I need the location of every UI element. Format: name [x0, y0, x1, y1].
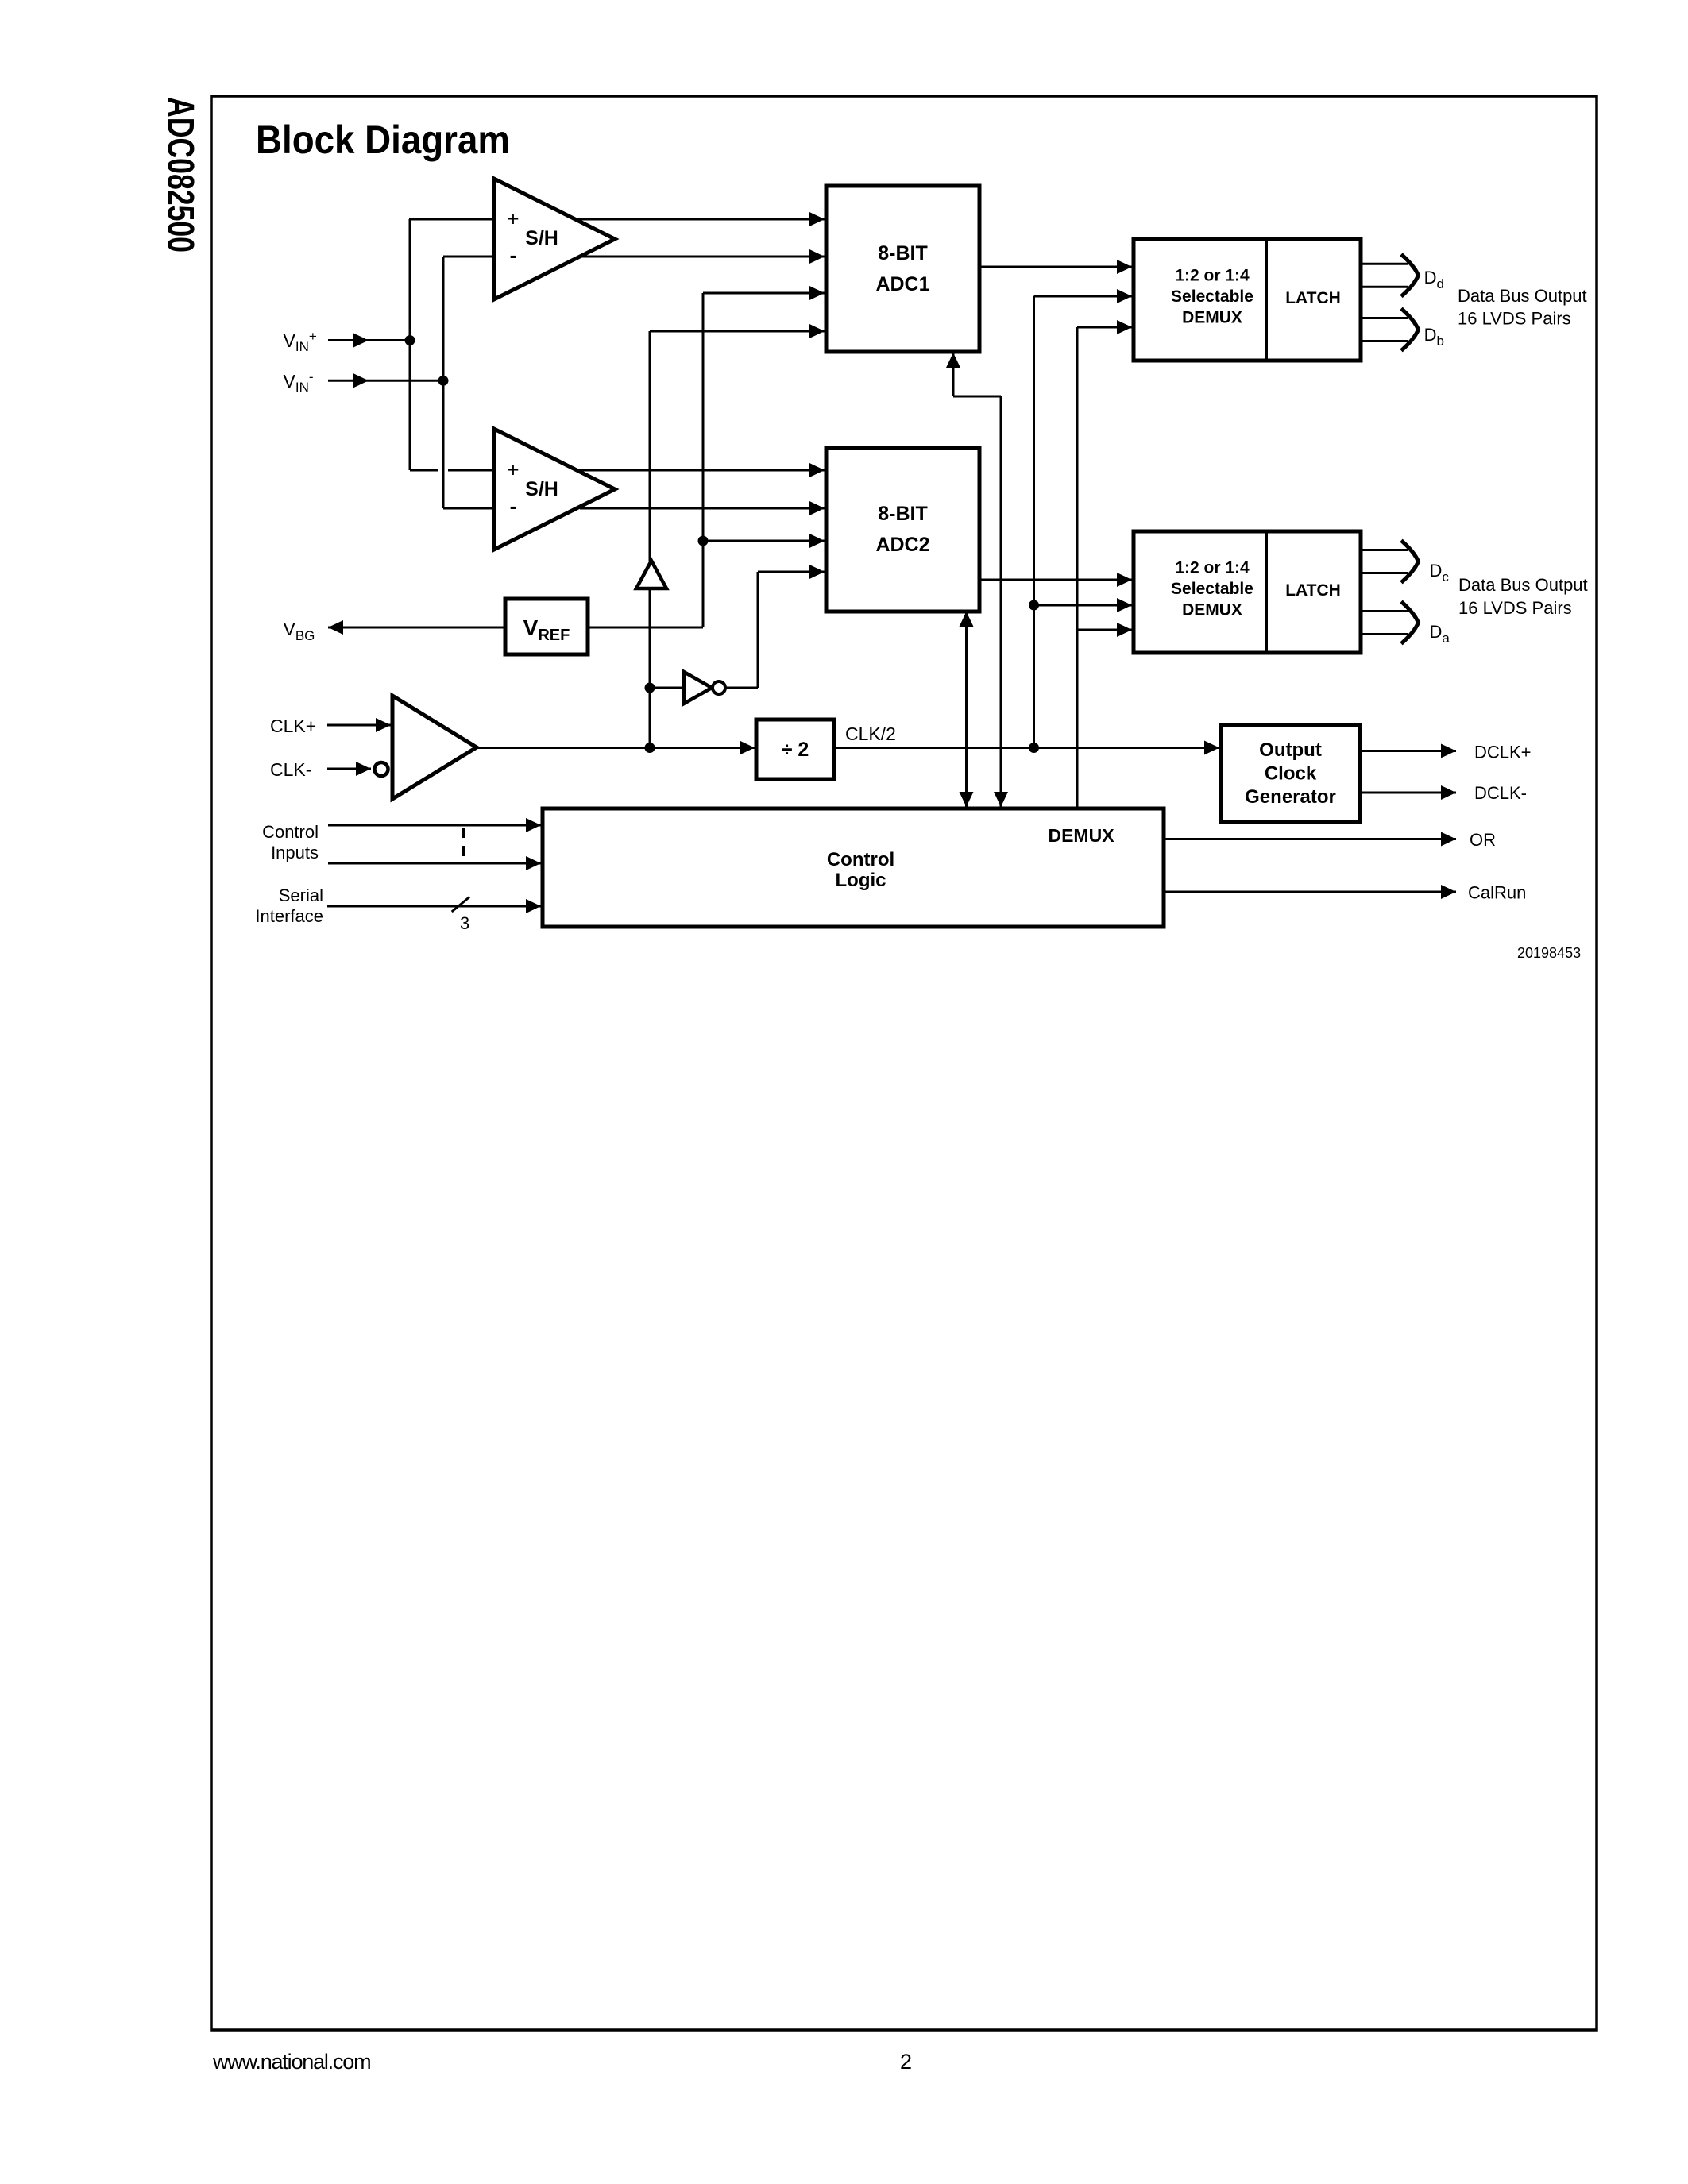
svg-text:Logic: Logic: [836, 870, 886, 891]
svg-text:Selectable: Selectable: [1171, 580, 1253, 598]
svg-text:Control: Control: [262, 822, 319, 842]
svg-text:20198453: 20198453: [1517, 945, 1581, 961]
svg-text:www.national.com: www.national.com: [212, 2050, 370, 2074]
svg-text:S/H: S/H: [525, 478, 558, 500]
svg-text:Serial: Serial: [279, 886, 323, 905]
svg-text:DEMUX: DEMUX: [1182, 309, 1242, 327]
svg-text:CLK+: CLK+: [270, 716, 316, 736]
svg-text:+: +: [507, 207, 519, 231]
svg-text:1:2 or 1:4: 1:2 or 1:4: [1175, 558, 1250, 577]
svg-text:CLK/2: CLK/2: [845, 723, 896, 744]
svg-text:Block Diagram: Block Diagram: [256, 118, 510, 162]
svg-text:Clock: Clock: [1265, 763, 1317, 785]
svg-text:LATCH: LATCH: [1285, 581, 1341, 600]
svg-text:16 LVDS Pairs: 16 LVDS Pairs: [1458, 598, 1572, 618]
svg-text:1:2 or 1:4: 1:2 or 1:4: [1175, 266, 1250, 284]
svg-text:ADC2: ADC2: [875, 534, 929, 556]
svg-text:S/H: S/H: [525, 227, 558, 249]
svg-text:Generator: Generator: [1245, 786, 1336, 808]
svg-text:ADC1: ADC1: [875, 273, 929, 295]
svg-text:8-BIT: 8-BIT: [878, 242, 928, 264]
svg-text:DCLK-: DCLK-: [1474, 783, 1527, 803]
svg-text:LATCH: LATCH: [1285, 289, 1341, 307]
svg-text:16 LVDS Pairs: 16 LVDS Pairs: [1458, 309, 1571, 329]
svg-text:Data Bus Output: Data Bus Output: [1458, 575, 1588, 595]
svg-text:+: +: [507, 458, 519, 482]
svg-text:DEMUX: DEMUX: [1048, 825, 1114, 846]
svg-text:8-BIT: 8-BIT: [878, 503, 928, 525]
svg-text:DEMUX: DEMUX: [1182, 601, 1242, 619]
svg-text:Inputs: Inputs: [271, 843, 319, 862]
svg-text:Interface: Interface: [255, 906, 323, 926]
svg-text:CalRun: CalRun: [1468, 883, 1526, 903]
svg-text:DCLK+: DCLK+: [1474, 743, 1532, 762]
svg-text:OR: OR: [1470, 830, 1496, 850]
svg-text:Data Bus Output: Data Bus Output: [1458, 286, 1587, 306]
svg-text:3: 3: [460, 913, 469, 933]
svg-text:CLK-: CLK-: [270, 759, 311, 780]
svg-text:÷ 2: ÷ 2: [782, 739, 809, 761]
svg-text:ADC082500: ADC082500: [160, 97, 203, 253]
svg-text:Control: Control: [827, 849, 894, 870]
svg-text:Selectable: Selectable: [1171, 287, 1253, 306]
svg-text:-: -: [510, 494, 517, 518]
svg-text:2: 2: [900, 2050, 912, 2074]
svg-text:-: -: [510, 243, 517, 267]
svg-text:Output: Output: [1259, 739, 1322, 761]
